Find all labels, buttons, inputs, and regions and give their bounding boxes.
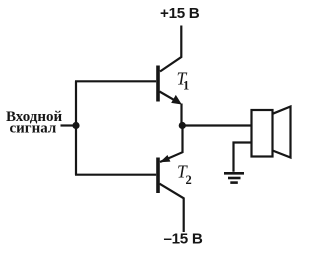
transistor T2 emitter arrow (points into base) bbox=[160, 155, 171, 162]
svg-text:+15 В: +15 В bbox=[160, 5, 200, 22]
node input junction dot bbox=[72, 122, 79, 129]
wire T2 base bbox=[75, 174, 156, 176]
ground bbox=[224, 173, 244, 182]
wire T2 emitter from node bbox=[160, 126, 183, 163]
svg-text:1: 1 bbox=[183, 79, 189, 93]
speaker LS1 box bbox=[252, 110, 273, 157]
speaker LS1 horn bbox=[273, 107, 291, 158]
wire +15V lead to T1 collector bbox=[160, 26, 181, 72]
transistor T1 base bar bbox=[156, 66, 160, 102]
wire T2 collector to -15V bbox=[160, 184, 184, 232]
wire output node to speaker bbox=[182, 124, 251, 126]
transistor T2 base bar bbox=[156, 158, 160, 194]
wire T1 base bbox=[75, 80, 156, 82]
svg-text:–15 В: –15 В bbox=[164, 231, 203, 248]
node output junction dot bbox=[179, 122, 186, 129]
transistor T1 emitter with arrow bbox=[160, 92, 182, 124]
wire input stub bbox=[61, 124, 77, 126]
wire input vertical branch bbox=[75, 81, 77, 174]
wire speaker to ground bbox=[234, 143, 252, 172]
svg-text:сигнал: сигнал bbox=[10, 120, 57, 136]
svg-text:2: 2 bbox=[186, 173, 192, 187]
